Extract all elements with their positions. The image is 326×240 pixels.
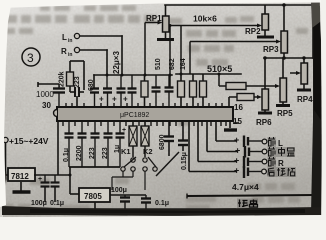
output cap 4.7u row3 bbox=[234, 156, 262, 169]
node B: input terminal R bbox=[61, 47, 80, 58]
svg-text:22μ×3: 22μ×3 bbox=[112, 51, 121, 74]
cap 100u after 7805 bbox=[120, 195, 130, 209]
RP4 potentiometer bbox=[290, 58, 313, 104]
figure number 3 bbox=[22, 48, 40, 66]
resistor at x203 bbox=[200, 74, 207, 107]
node A: input terminal L bbox=[62, 33, 80, 44]
wire: bus down to 7805 input bbox=[70, 167, 79, 194]
cap 0.1u after 7805 bbox=[141, 195, 151, 209]
svg-text:223: 223 bbox=[74, 76, 81, 88]
svg-text:510×5: 510×5 bbox=[207, 64, 232, 74]
svg-text:+: + bbox=[235, 146, 240, 156]
wire: diagonal from switch K2 to 0.15u bbox=[156, 152, 179, 176]
svg-text:K1: K1 bbox=[121, 147, 131, 156]
power terminal +15~+24V bbox=[3, 136, 49, 175]
RP1 potentiometer bbox=[145, 5, 174, 75]
capacitor at x156 bbox=[152, 75, 161, 107]
svg-text:4.7μ×4: 4.7μ×4 bbox=[232, 182, 259, 192]
IC U1 uPC1892 bbox=[57, 107, 233, 121]
svg-text:15: 15 bbox=[233, 117, 242, 126]
output stair wire to row4 bbox=[189, 121, 237, 172]
kanji ink density boost bbox=[237, 137, 296, 208]
wire: sub-IC ground/return bus bbox=[69, 166, 120, 168]
svg-text:16: 16 bbox=[234, 103, 243, 112]
pin 15 stub bbox=[233, 122, 239, 124]
circuit strokes layer bbox=[80, 5, 313, 87]
svg-text:0.15μ: 0.15μ bbox=[181, 152, 188, 170]
capacitor 1000 bbox=[36, 84, 65, 107]
svg-text:223: 223 bbox=[89, 147, 96, 159]
cap 100u at 7812 output bbox=[38, 175, 50, 202]
svg-text:3: 3 bbox=[27, 51, 34, 65]
capacitor 0.15u bbox=[178, 121, 188, 151]
dark blob left edge near 7812 bbox=[0, 168, 7, 186]
output cap 4.7u row2 bbox=[235, 146, 262, 158]
svg-text:RP3: RP3 bbox=[263, 45, 279, 54]
relay K1 coil bbox=[129, 121, 137, 157]
label qian-L (front L) bbox=[268, 137, 275, 146]
relay K2 coil bbox=[141, 121, 149, 157]
svg-text:in: in bbox=[68, 52, 72, 58]
svg-text:30: 30 bbox=[42, 101, 51, 110]
switch K1 contacts bbox=[112, 157, 136, 190]
svg-text:μPC1892: μPC1892 bbox=[120, 112, 149, 119]
svg-text:0.1μ: 0.1μ bbox=[63, 148, 70, 162]
svg-text:RP1: RP1 bbox=[146, 14, 162, 23]
resistor 510 horizontal (to RP5) bbox=[219, 74, 280, 90]
svg-text:RP5: RP5 bbox=[277, 109, 293, 118]
cap 1u bbox=[114, 121, 126, 167]
ground bar under IC right pins bbox=[224, 121, 237, 130]
wire: output frame separator bbox=[187, 195, 315, 196]
svg-text:+: + bbox=[38, 176, 42, 183]
svg-text:510: 510 bbox=[155, 58, 162, 70]
svg-text:7805: 7805 bbox=[84, 192, 102, 201]
white page margins bbox=[0, 0, 326, 8]
cap 223 b bbox=[104, 121, 113, 167]
IC pin stubs top bbox=[66, 103, 222, 107]
dark scan band bottom bbox=[2, 206, 321, 216]
main ground bus bbox=[60, 208, 236, 212]
svg-text:100μ: 100μ bbox=[31, 200, 47, 207]
svg-text:220k: 220k bbox=[59, 71, 66, 87]
svg-text:+: + bbox=[122, 127, 126, 134]
output stair wire to row2 bbox=[207, 121, 238, 152]
RP2 potentiometer bbox=[170, 5, 274, 87]
wire: top bus to pots bbox=[165, 4, 313, 6]
svg-text:223: 223 bbox=[102, 147, 109, 159]
wire: R input line bbox=[80, 49, 107, 51]
svg-text:K2: K2 bbox=[143, 147, 153, 156]
svg-text:L: L bbox=[62, 33, 67, 42]
label qian-R (front R) bbox=[268, 157, 275, 166]
resistor 510 (below RP1 feed) bbox=[141, 75, 148, 107]
svg-text:10k×6: 10k×6 bbox=[193, 14, 217, 24]
svg-text:+15~+24V: +15~+24V bbox=[9, 136, 49, 146]
svg-text:+: + bbox=[123, 95, 128, 104]
svg-text:RP4: RP4 bbox=[297, 95, 313, 104]
svg-text:+: + bbox=[99, 95, 104, 104]
svg-text:0.1μ: 0.1μ bbox=[155, 200, 169, 207]
svg-text:+: + bbox=[112, 95, 117, 104]
RP6 potentiometer bbox=[256, 58, 272, 127]
RC network 220k / 223 loop bbox=[70, 61, 84, 107]
wire: IC left bottom pin to +12V rail bbox=[57, 121, 59, 175]
resistor 220k bbox=[67, 72, 74, 86]
RP3 potentiometer bbox=[190, 3, 288, 74]
label qian-zhong-zhi (front center) bbox=[268, 147, 295, 156]
wire: top cap bus y75 bbox=[94, 74, 172, 76]
svg-text:0.1μ: 0.1μ bbox=[50, 200, 64, 207]
capacitor 223 bbox=[75, 87, 79, 97]
capacitor 682 at x169 bbox=[165, 75, 174, 107]
dark scan band right bbox=[311, 0, 322, 213]
caps above IC row: C 223 at x94 bbox=[90, 89, 99, 108]
regulator 7805 bbox=[79, 188, 146, 209]
regulator 7812 bbox=[8, 168, 70, 181]
svg-text:+: + bbox=[234, 166, 239, 176]
capacitor 6800 bbox=[164, 121, 174, 156]
output stair wire to row1 bbox=[216, 121, 237, 141]
svg-text:1μ: 1μ bbox=[114, 145, 121, 153]
cap 0.1u at 7812 output bbox=[51, 175, 60, 202]
svg-text:RP2: RP2 bbox=[245, 27, 261, 36]
svg-text:7812: 7812 bbox=[11, 172, 29, 181]
resistor at x193 bbox=[190, 74, 197, 107]
wire: 510x5 bus y73 bbox=[176, 73, 241, 75]
output cap 4.7u row1 bbox=[234, 135, 262, 147]
IC pin1 notch bbox=[54, 110, 57, 117]
output stair wire to row3 bbox=[198, 121, 237, 162]
RP5 potentiometer bbox=[276, 58, 293, 118]
resistor 510 horizontal (pin16 to RP6) bbox=[229, 94, 262, 108]
input network: wire to C 1000 bbox=[38, 82, 59, 87]
label shu-chu (output) bold bbox=[238, 200, 258, 208]
svg-text:1000: 1000 bbox=[36, 90, 54, 99]
cap 223 a bbox=[91, 121, 100, 167]
svg-text:L: L bbox=[278, 139, 283, 148]
electrolytic 22u a bbox=[99, 75, 112, 107]
wire: right vertical border bus bbox=[312, 5, 314, 58]
label hou-huan-rao (rear surround) bbox=[268, 168, 295, 176]
svg-text:in: in bbox=[68, 38, 72, 44]
ground under 7812 bbox=[13, 182, 31, 192]
resistor at x181 bbox=[178, 74, 185, 107]
svg-text:R: R bbox=[278, 159, 284, 168]
IC pin stubs bottom bbox=[63, 121, 226, 126]
svg-text:RP6: RP6 bbox=[256, 118, 272, 127]
svg-text:R: R bbox=[61, 47, 67, 56]
svg-text:100μ: 100μ bbox=[111, 187, 127, 194]
output cap 4.7u row4 bbox=[234, 166, 261, 179]
svg-text:2200: 2200 bbox=[76, 145, 83, 161]
electrolytic 22u c bbox=[123, 75, 137, 107]
electrolytic 22u b bbox=[112, 75, 126, 107]
wire: mid-right bus y58 bbox=[264, 57, 313, 59]
cap 2200 bbox=[78, 121, 87, 167]
caps below IC: 0.1u bbox=[65, 121, 74, 167]
switch K2 contacts bbox=[143, 157, 157, 190]
svg-text:+: + bbox=[234, 135, 239, 145]
wire: L input line bbox=[80, 35, 122, 37]
svg-text:+: + bbox=[234, 156, 239, 166]
